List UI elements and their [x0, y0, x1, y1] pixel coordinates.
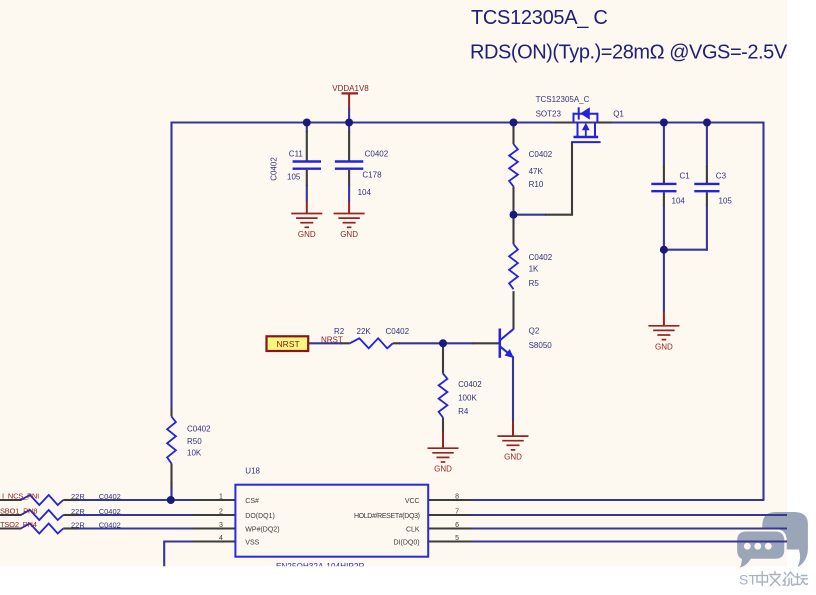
- svg-text:104: 104: [672, 197, 686, 206]
- svg-text:VDDA1V8: VDDA1V8: [332, 84, 369, 93]
- svg-text:1K: 1K: [529, 265, 539, 274]
- svg-text:R4: R4: [458, 407, 469, 416]
- svg-text:Q1: Q1: [613, 110, 624, 119]
- svg-text:GND: GND: [298, 230, 316, 239]
- svg-text:R50: R50: [187, 437, 202, 446]
- svg-text:DO(DQ1): DO(DQ1): [245, 513, 275, 520]
- svg-text:104: 104: [358, 188, 372, 197]
- svg-text:C0402: C0402: [99, 492, 121, 501]
- svg-text:WP#(DQ2): WP#(DQ2): [245, 527, 279, 534]
- svg-text:R10: R10: [529, 180, 544, 189]
- svg-text:VSS: VSS: [245, 540, 259, 547]
- svg-text:GND: GND: [340, 230, 358, 239]
- svg-text:105: 105: [719, 197, 733, 206]
- svg-text:NRST: NRST: [277, 339, 300, 349]
- svg-text:22R: 22R: [71, 492, 85, 501]
- svg-text:47K: 47K: [529, 167, 544, 176]
- svg-text:C0402: C0402: [529, 150, 553, 159]
- svg-text:105: 105: [287, 172, 301, 181]
- svg-text:TSO2_PN4: TSO2_PN4: [0, 520, 37, 529]
- svg-text:C0402: C0402: [99, 520, 121, 529]
- svg-text:1: 1: [219, 494, 223, 501]
- svg-text:GND: GND: [504, 453, 522, 462]
- svg-text:SOT23: SOT23: [536, 110, 562, 119]
- svg-text:C0402: C0402: [365, 149, 389, 158]
- svg-text:7: 7: [455, 509, 459, 516]
- svg-text:GND: GND: [434, 465, 452, 474]
- svg-text:NRST: NRST: [321, 336, 343, 345]
- svg-text:C1: C1: [680, 172, 691, 181]
- svg-text:TCS12305A_C: TCS12305A_C: [536, 95, 590, 104]
- svg-text:C178: C178: [362, 171, 382, 180]
- svg-text:TCS12305A_ C: TCS12305A_ C: [471, 7, 607, 29]
- svg-text:22R: 22R: [71, 520, 85, 529]
- svg-text:U18: U18: [245, 466, 260, 475]
- svg-text:5: 5: [455, 535, 459, 542]
- svg-text:C0402: C0402: [386, 327, 410, 336]
- svg-text:2: 2: [219, 509, 223, 516]
- svg-text:C11: C11: [289, 149, 304, 158]
- svg-text:8: 8: [455, 494, 459, 501]
- svg-text:I_NCS_PNI: I_NCS_PNI: [2, 492, 39, 501]
- svg-text:S8050: S8050: [529, 341, 553, 350]
- svg-text:CS#: CS#: [245, 498, 259, 505]
- svg-text:100K: 100K: [458, 394, 477, 403]
- svg-text:ST: ST: [739, 572, 757, 588]
- svg-text:HOLD#/RESET#(DQ3): HOLD#/RESET#(DQ3): [354, 513, 420, 520]
- svg-text:RDS(ON)(Typ.)=28mΩ @VGS=-2.5V: RDS(ON)(Typ.)=28mΩ @VGS=-2.5V: [470, 42, 788, 64]
- svg-text:Q2: Q2: [529, 327, 540, 336]
- svg-text:C0402: C0402: [187, 424, 211, 433]
- svg-text:C0402: C0402: [99, 507, 121, 516]
- svg-text:VCC: VCC: [405, 498, 420, 505]
- svg-text:C0402: C0402: [270, 157, 279, 181]
- svg-text:SBO1_PN8: SBO1_PN8: [0, 507, 37, 516]
- svg-text:22R: 22R: [71, 507, 85, 516]
- svg-text:C3: C3: [716, 172, 727, 181]
- svg-text:22K: 22K: [357, 327, 372, 336]
- svg-text:C0402: C0402: [458, 380, 482, 389]
- svg-text:C0402: C0402: [529, 253, 553, 262]
- svg-text:CLK: CLK: [406, 527, 420, 534]
- svg-text:6: 6: [455, 522, 459, 529]
- svg-text:3: 3: [219, 522, 223, 529]
- svg-text:R5: R5: [529, 279, 540, 288]
- svg-text:DI(DQ0): DI(DQ0): [394, 540, 420, 547]
- svg-text:10K: 10K: [187, 448, 202, 457]
- svg-text:GND: GND: [655, 342, 673, 351]
- svg-text:4: 4: [219, 535, 223, 542]
